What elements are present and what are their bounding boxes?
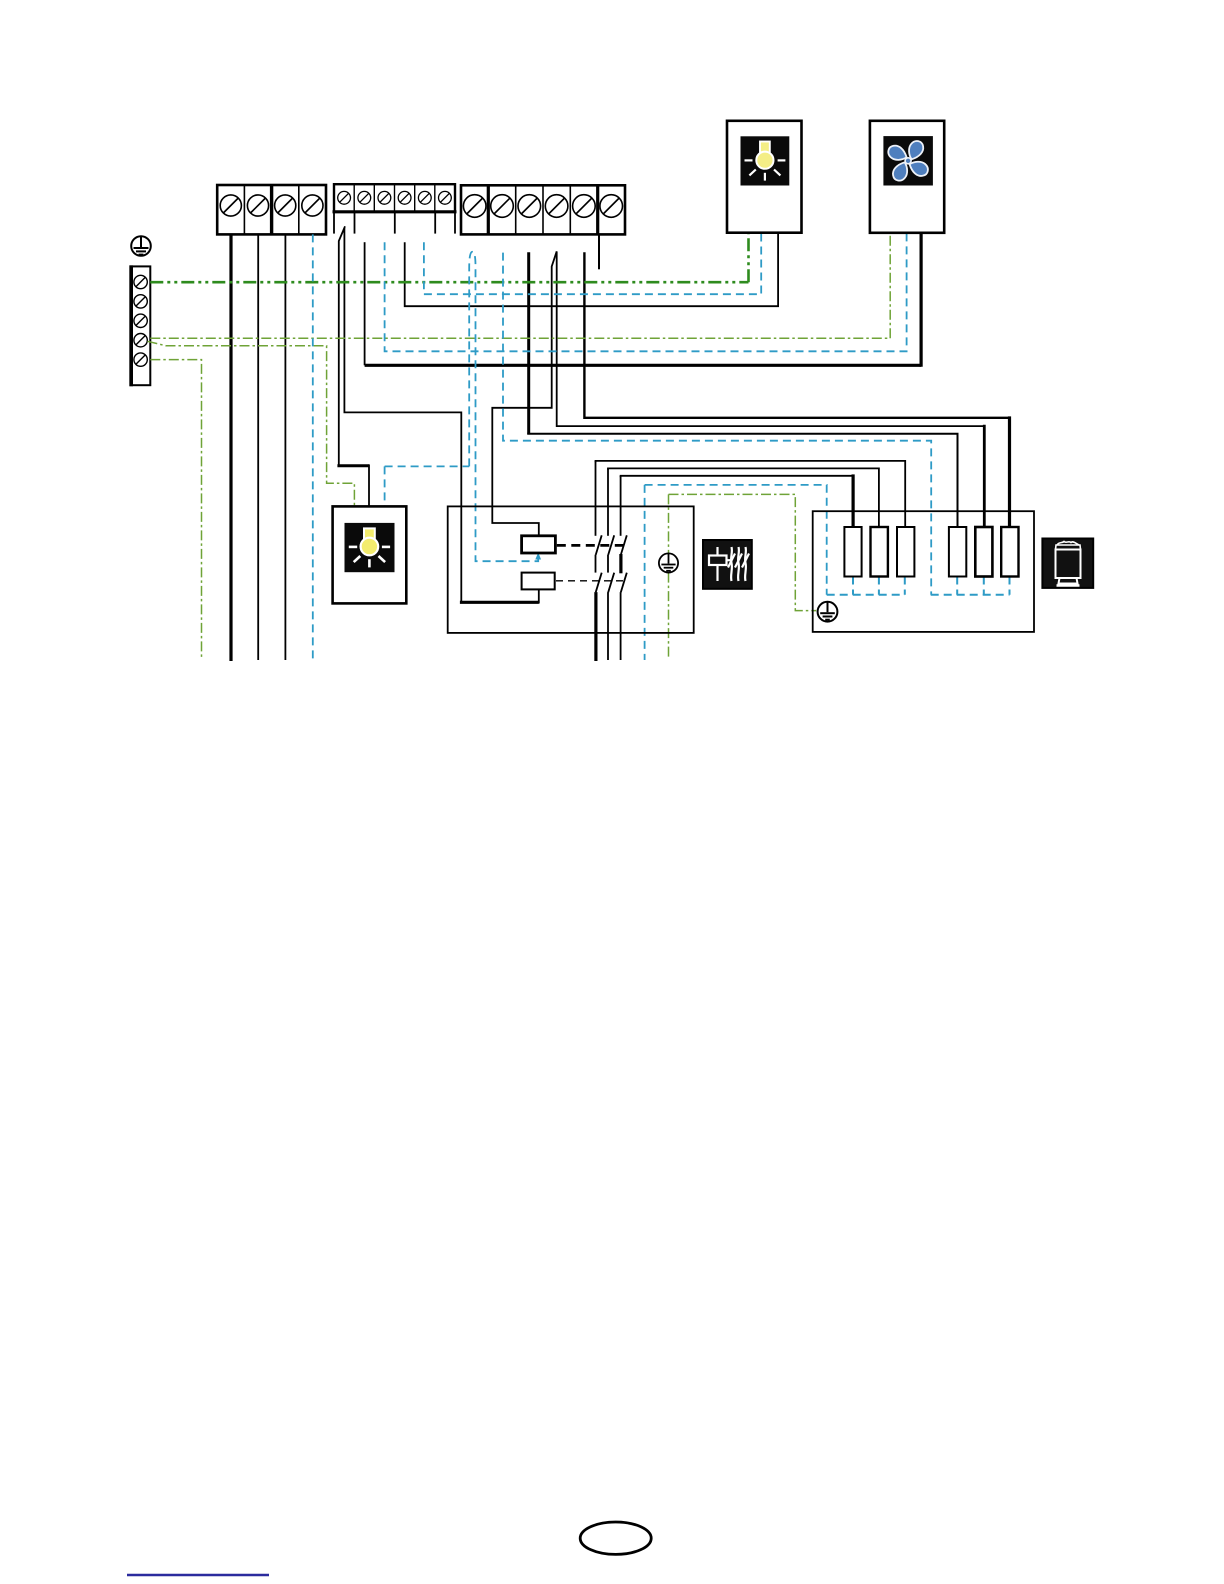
- footer ellipse: [580, 1522, 651, 1554]
- wire PE main dark green from strip screw1 to light box: [150, 233, 748, 282]
- wire heater R6 thick drop: [1008, 416, 1011, 527]
- wire X2 cell4 to light box black: [405, 233, 778, 306]
- switch pole2 contacts: [608, 468, 614, 660]
- wire X3 cell5 to heater R6: [584, 252, 1008, 418]
- wire to heater R4: [527, 434, 957, 528]
- ground symbol inside heater box: [818, 602, 838, 622]
- heater element R3: [897, 527, 914, 577]
- switch pole3 contacts: [621, 476, 627, 660]
- heater element R2: [871, 527, 888, 577]
- wire lamp box black drop: [368, 464, 370, 506]
- hood light box: [727, 121, 802, 233]
- heater element R6: [1001, 527, 1018, 577]
- wire X2 cell1 straight to contactor coil K2: [344, 228, 461, 602]
- heater element R1: [844, 527, 861, 577]
- wire from X1 cell2 down: [257, 234, 259, 660]
- wire N blue from X1 cell4 down: [312, 234, 314, 660]
- wire X2 cell2 down: [364, 242, 366, 365]
- hood light icon: [741, 136, 790, 185]
- oven lamp icon: [345, 523, 395, 572]
- wire blue X3 cell2 to heater group2 common: [503, 253, 931, 595]
- ground symbol PE (top left): [131, 236, 151, 256]
- wire X3 cell4 straight to heater R5: [557, 251, 985, 426]
- wire blue X2 cell5 to light box: [424, 233, 761, 294]
- oven switch unit box: [448, 506, 694, 633]
- ground symbol inside oven box: [659, 553, 678, 572]
- footer rule: [127, 1574, 269, 1576]
- wire blue oven box to heater group1 common: [645, 485, 827, 595]
- wire PE green strip screw5 down: [150, 360, 201, 658]
- wire blue hairpin to contactor coil K1 arrow: [469, 252, 538, 561]
- arrowhead blue at coil K1: [535, 553, 541, 560]
- wire blue common bus heater group1: [827, 577, 905, 595]
- wire from X1 cell3 down: [284, 234, 286, 660]
- contactor coil K1: [522, 536, 556, 553]
- terminal strip X4 (left vertical, 5 screws): [130, 265, 150, 386]
- grill heater icon box: [703, 540, 752, 589]
- wire switch pole3 to heater R1: [621, 476, 854, 477]
- contactor coil K2: [522, 573, 555, 590]
- wire PE green strip screw4 to fan box: [150, 233, 890, 338]
- heater element R5: [975, 527, 992, 577]
- linkage dashed K1 row: [557, 544, 624, 547]
- switch pole1 contacts: [596, 461, 602, 592]
- wire blue branch to oven lamp box: [385, 465, 470, 467]
- block X2 connector pins: [334, 212, 455, 234]
- wire thick to fan box: [365, 364, 922, 367]
- terminal block X3 (top right, 6 screws): [461, 184, 625, 234]
- wire switch pole2 to heater R2: [608, 468, 879, 527]
- wire heater R1 thick drop: [851, 474, 854, 527]
- heater elements box: [813, 511, 1034, 632]
- minute minder icon box: [1042, 539, 1093, 588]
- wire X3 cell3 thick down: [527, 252, 530, 434]
- linkage dashed K2 row: [556, 580, 624, 582]
- hood fan box: [870, 121, 944, 233]
- wire thick elbow to oven lamp box: [337, 464, 369, 467]
- wire blue X2 cell3 to fan box: [385, 233, 907, 351]
- wire X3 stub below divider: [598, 234, 600, 269]
- switch pole3 thick mid lead: [619, 554, 622, 573]
- terminal block X2 (top middle, 6 small screws): [333, 184, 457, 233]
- wire fan box black riser: [919, 233, 922, 367]
- wire coil K2 bottom stub: [538, 589, 540, 603]
- wire heater R5 drop: [983, 425, 986, 528]
- hood fan icon: [883, 136, 933, 185]
- oven lamp box: [333, 506, 407, 603]
- terminal block X1 (top left, 4 screws): [217, 184, 326, 234]
- wire PE green link oven ground to heater ground: [669, 494, 817, 658]
- wire blue common bus heater group2: [931, 577, 1010, 595]
- wire thick bottom link to coil K2: [460, 601, 539, 604]
- heater element R4: [949, 527, 966, 577]
- wire X3 cell4 bent to contactor coil K1: [492, 251, 556, 536]
- wire X2 cell1 bent branch to oven lamp: [339, 226, 345, 465]
- wire switch pole1 to heater R3: [596, 461, 906, 528]
- switch pole1 thick lower lead: [594, 592, 597, 661]
- wire L1 thick from X1 cell1 down: [229, 234, 232, 661]
- wire PE green branch to oven lamp box: [148, 341, 355, 506]
